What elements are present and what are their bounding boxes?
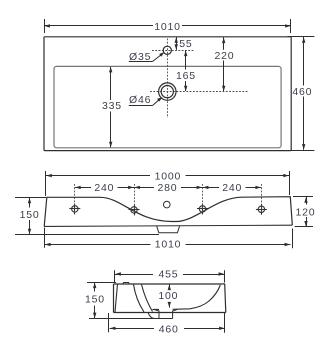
svg-text:240: 240 bbox=[222, 182, 242, 194]
label O46 with leader bbox=[129, 97, 163, 106]
front view fixing cross 3 bbox=[197, 203, 208, 214]
centerline horizontal through drain hole bbox=[150, 91, 248, 93]
svg-text:460: 460 bbox=[159, 323, 179, 335]
front view bottom edge bbox=[44, 225, 292, 226]
front view fixing cross 4 bbox=[256, 204, 267, 215]
dim 120 front view right bbox=[293, 197, 313, 227]
centerline vertical through holes bbox=[167, 39, 169, 119]
front view floor line bbox=[15, 234, 159, 236]
drain hole inner circle O46 bbox=[161, 86, 173, 98]
svg-text:150: 150 bbox=[85, 294, 105, 306]
svg-text:455: 455 bbox=[159, 269, 179, 281]
dim 55 faucet to top edge bbox=[175, 37, 178, 50]
side view bowl back visible edge bbox=[142, 285, 153, 312]
svg-text:120: 120 bbox=[296, 207, 316, 219]
svg-text:55: 55 bbox=[179, 38, 192, 50]
dim 335 basin depth bbox=[109, 67, 112, 148]
dim 100 side view bowl depth bbox=[168, 284, 171, 307]
svg-text:1010: 1010 bbox=[154, 21, 181, 33]
dim 150 front view left bbox=[15, 198, 46, 235]
dim 220 drain to top edge bbox=[222, 37, 225, 91]
front view drain boss trapezoid bbox=[157, 226, 180, 233]
dim 1010 front view bottom bbox=[45, 228, 293, 249]
dim 165 faucet to drain bbox=[184, 50, 187, 91]
svg-text:150: 150 bbox=[20, 209, 40, 221]
svg-text:100: 100 bbox=[158, 290, 178, 302]
svg-text:460: 460 bbox=[292, 86, 312, 98]
side view drain boss bbox=[148, 310, 177, 319]
svg-text:Ø46: Ø46 bbox=[129, 94, 151, 106]
side view bowl bottom and front inner curve bbox=[153, 285, 221, 309]
svg-text:240: 240 bbox=[94, 182, 114, 194]
side view floor line bbox=[89, 318, 173, 320]
label O35 with leader bbox=[129, 52, 165, 62]
svg-text:335: 335 bbox=[102, 100, 122, 112]
dim 240-280-240 front view bbox=[75, 186, 261, 189]
side view back wall cut left slant bbox=[115, 284, 118, 312]
svg-text:Ø35: Ø35 bbox=[129, 51, 151, 63]
dim 1000 front view bbox=[46, 171, 290, 196]
front view body outline with wave top bbox=[44, 197, 292, 227]
centerline horizontal through faucet hole bbox=[152, 50, 194, 52]
top view outer rim rectangle bbox=[44, 37, 291, 151]
front view fixing cross 2 bbox=[129, 204, 140, 215]
drain hole outer circle bbox=[159, 83, 176, 100]
dim 1010 top view bbox=[44, 19, 291, 33]
front view fixing cross 1 bbox=[69, 203, 80, 214]
svg-text:1000: 1000 bbox=[155, 170, 182, 182]
svg-text:165: 165 bbox=[176, 70, 196, 82]
side view tap deck boss bump bbox=[123, 283, 130, 285]
top view inner basin rectangle bbox=[54, 66, 281, 147]
dashed extension lines to crosses bbox=[75, 184, 262, 214]
svg-text:1010: 1010 bbox=[155, 239, 182, 251]
faucet hole circle O35 bbox=[163, 46, 171, 54]
front view overflow hole bbox=[164, 201, 171, 208]
dim 455 side view bbox=[115, 270, 225, 282]
dim 460 top view right bbox=[288, 37, 315, 151]
side view back wall cut right curve bbox=[134, 285, 145, 313]
dim 460 side view bottom bbox=[109, 313, 225, 333]
side view outline bbox=[114, 284, 226, 313]
svg-text:280: 280 bbox=[158, 182, 178, 194]
svg-text:220: 220 bbox=[215, 50, 235, 62]
dim 150 side view left bbox=[87, 282, 116, 318]
